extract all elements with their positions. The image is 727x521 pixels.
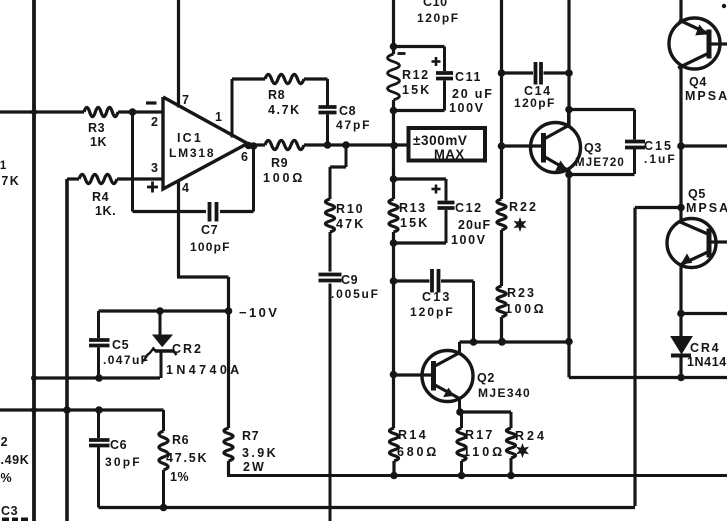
svg-text:C13: C13 [422, 290, 452, 304]
svg-text:LM318: LM318 [169, 146, 215, 160]
svg-text:R14: R14 [398, 428, 428, 442]
svg-text:15K: 15K [402, 83, 432, 97]
svg-text:C3: C3 [1, 504, 18, 518]
svg-text:1: 1 [215, 110, 223, 124]
svg-text:Q3: Q3 [584, 141, 602, 155]
svg-text:Q5: Q5 [688, 187, 706, 201]
svg-text:1K.: 1K. [95, 204, 116, 218]
svg-text:C5: C5 [112, 338, 129, 352]
svg-text:15K: 15K [400, 216, 430, 230]
svg-text:7: 7 [182, 93, 190, 107]
svg-text:100Ω: 100Ω [505, 302, 546, 316]
svg-text:30pF: 30pF [105, 455, 142, 469]
svg-text:20 uF: 20 uF [452, 87, 494, 101]
svg-text:MPSA5: MPSA5 [685, 89, 727, 103]
svg-text:C11: C11 [455, 70, 482, 84]
svg-text:R9: R9 [271, 156, 288, 170]
svg-text:R22: R22 [509, 200, 538, 214]
svg-text:1K: 1K [90, 135, 107, 149]
svg-text:Q2: Q2 [477, 371, 495, 385]
svg-text:R13: R13 [399, 201, 427, 215]
svg-text:1N4740A: 1N4740A [166, 363, 243, 377]
svg-text:47K: 47K [0, 174, 20, 188]
svg-text:100V: 100V [451, 233, 487, 247]
svg-text:R12: R12 [402, 68, 430, 82]
svg-text:C8: C8 [339, 104, 356, 118]
svg-text:MJE340: MJE340 [478, 386, 531, 400]
svg-text:C12: C12 [455, 201, 483, 215]
svg-text:R8: R8 [268, 88, 285, 102]
svg-text:680Ω: 680Ω [397, 445, 439, 459]
svg-text:1%: 1% [0, 471, 12, 485]
svg-text:C15: C15 [644, 139, 673, 153]
svg-text:.005uF: .005uF [331, 287, 380, 301]
svg-text:6: 6 [241, 150, 249, 164]
svg-text:3.9K: 3.9K [242, 446, 278, 460]
svg-text:2W: 2W [243, 460, 266, 474]
svg-text:120pF: 120pF [410, 305, 455, 319]
svg-text:120pF: 120pF [417, 11, 460, 25]
svg-text:110Ω: 110Ω [463, 445, 505, 459]
svg-text:2.49K: 2.49K [0, 453, 29, 467]
svg-text:1%: 1% [170, 470, 189, 484]
svg-text:.047uF: .047uF [103, 353, 149, 367]
svg-text:IC1: IC1 [177, 131, 203, 145]
svg-text:4: 4 [182, 181, 190, 195]
svg-text:3: 3 [151, 161, 159, 175]
svg-text:C9: C9 [341, 273, 358, 287]
svg-text:R17: R17 [465, 428, 495, 442]
svg-text:R4: R4 [92, 190, 109, 204]
svg-text:MJE720: MJE720 [575, 157, 625, 169]
svg-text:C10: C10 [423, 0, 448, 9]
svg-text:100V: 100V [449, 101, 485, 115]
svg-text:R7: R7 [242, 429, 259, 443]
svg-text:1N414: 1N414 [687, 355, 727, 369]
svg-text:R23: R23 [507, 286, 536, 300]
svg-text:R1: R1 [0, 160, 7, 172]
svg-text:47pF: 47pF [336, 118, 371, 132]
svg-text:2: 2 [151, 115, 159, 129]
svg-text:120pF: 120pF [514, 96, 556, 110]
svg-text:CR2: CR2 [172, 342, 203, 356]
svg-text:.1uF: .1uF [644, 152, 677, 166]
svg-text:R10: R10 [336, 202, 364, 216]
svg-text:47K: 47K [336, 217, 366, 231]
svg-text:CR4: CR4 [690, 341, 720, 355]
svg-text:R3: R3 [88, 121, 105, 135]
svg-text:C6: C6 [110, 438, 127, 452]
svg-text:47.5K: 47.5K [166, 451, 208, 465]
svg-text:20uF: 20uF [458, 218, 491, 232]
svg-text:MPSA0: MPSA0 [686, 201, 727, 215]
svg-text:−10V: −10V [239, 305, 279, 320]
svg-text:MAX: MAX [434, 147, 465, 162]
svg-text:4.7K: 4.7K [268, 103, 301, 117]
svg-text:100Ω: 100Ω [263, 171, 305, 185]
svg-text:Q4: Q4 [689, 75, 707, 89]
svg-text:R6: R6 [172, 433, 189, 447]
svg-text:C7: C7 [201, 223, 218, 237]
svg-text:R2: R2 [0, 435, 8, 449]
svg-text:100pF: 100pF [190, 240, 231, 254]
svg-text:R24: R24 [515, 429, 547, 443]
